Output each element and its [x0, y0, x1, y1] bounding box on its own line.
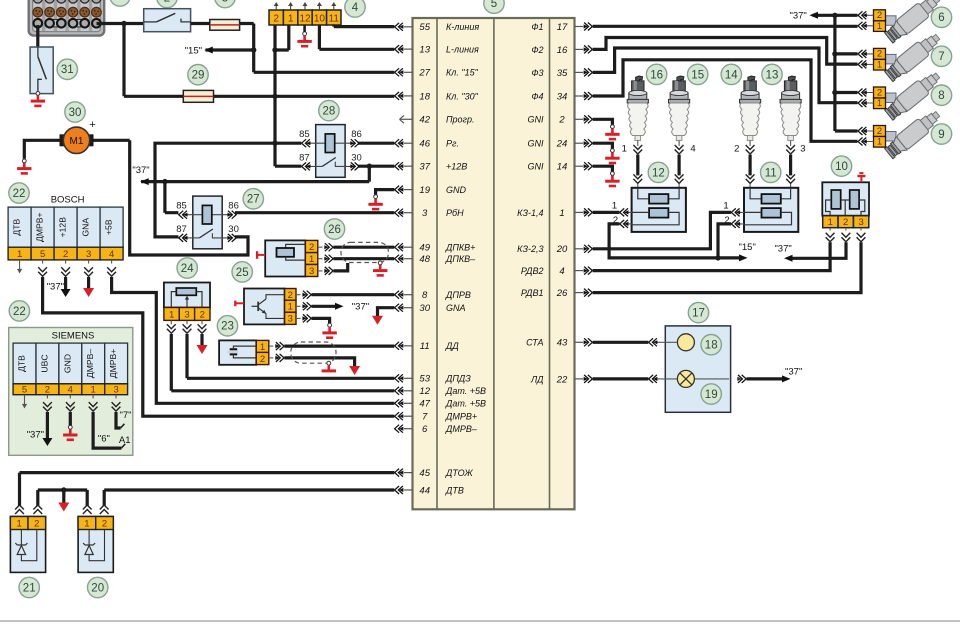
- svg-text:"37": "37": [27, 430, 44, 441]
- junction injector supply 2: [832, 51, 837, 56]
- camshaft position sensor B25 (ДПРВ): [235, 289, 296, 325]
- wire ignition switch to fuse F1: [191, 22, 210, 25]
- label "37" with arrow at sensor 25: [335, 302, 369, 313]
- svg-text:1: 1: [84, 519, 89, 530]
- svg-text:Рг.: Рг.: [446, 139, 459, 149]
- wire sensor24 pin1 to ECU 12 +5V: [171, 334, 394, 391]
- wire BOSCH pin2 to 37-net: [64, 277, 67, 289]
- ground of sensor23 shield: [322, 361, 336, 371]
- label "37" at SIEMENS: [27, 430, 44, 441]
- svg-text:3: 3: [309, 266, 314, 277]
- svg-text:87: 87: [299, 152, 310, 163]
- junction injector supply 1: [832, 13, 837, 18]
- ECU pin 42 Прогр. stub arrow: [400, 115, 413, 123]
- svg-text:1: 1: [612, 201, 617, 212]
- svg-text:24: 24: [181, 263, 194, 275]
- block 17 connector chevrons: [649, 338, 747, 383]
- svg-text:"37": "37": [774, 244, 791, 255]
- junction 15-net at coils: [715, 255, 720, 260]
- wire SIEMENS pin1 to point A1: [93, 412, 125, 448]
- ignition coil T11 (cyl 2-3): [744, 188, 798, 232]
- svg-text:L-линия: L-линия: [446, 45, 479, 55]
- svg-text:1: 1: [622, 144, 627, 155]
- sensor 25 pin chevrons: [296, 291, 311, 323]
- svg-text:Кл. "15": Кл. "15": [446, 68, 479, 78]
- wire ECU 35 Ф3 to injector 8: [593, 48, 858, 103]
- wire coil12 pin2 to 15-net: [609, 224, 741, 258]
- fuel injector Y8: [858, 69, 943, 122]
- svg-text:1: 1: [91, 385, 96, 396]
- circle label 29: [188, 65, 208, 85]
- fuel injector Y7: [858, 30, 943, 83]
- svg-text:2: 2: [102, 519, 107, 530]
- wire sensor25 pin2 to ECU 8 ДПРВ: [312, 293, 395, 296]
- svg-text:ДД: ДД: [445, 341, 459, 351]
- wire main-relay output down to 37-line: [141, 166, 369, 181]
- battery GB1: [29, 0, 105, 36]
- svg-text:1: 1: [288, 13, 294, 24]
- label pin 1 coil 12: [612, 201, 617, 212]
- svg-text:14: 14: [725, 69, 738, 81]
- ground at GNI pin 24: [605, 149, 619, 163]
- ECU left column pin numbers and labels: [418, 22, 486, 496]
- svg-text:30: 30: [351, 152, 362, 163]
- junction 15-feed / pin2 riser: [272, 47, 277, 52]
- wire valve10 pin2 to 37-net: [789, 242, 847, 258]
- svg-text:14: 14: [557, 162, 568, 173]
- svg-text:UBC: UBC: [39, 354, 49, 372]
- svg-text:4: 4: [559, 266, 564, 277]
- svg-text:3: 3: [86, 249, 91, 260]
- svg-text:20: 20: [91, 582, 104, 594]
- ground at ECU pin 19: [368, 195, 382, 209]
- label "15" with arrow: [185, 45, 213, 56]
- coil 11 pin chevrons: [731, 208, 744, 228]
- svg-text:3: 3: [288, 314, 293, 325]
- svg-text:43: 43: [557, 338, 568, 349]
- svg-text:GND: GND: [62, 354, 72, 373]
- svg-text:31: 31: [61, 64, 74, 76]
- svg-text:+12В: +12В: [58, 217, 68, 238]
- wire diag connector pin 2 riser: [275, 25, 301, 166]
- svg-text:1: 1: [117, 0, 123, 3]
- wire relay28 pin86 to ECU pin 46: [358, 142, 394, 145]
- circle label 3 (cut at top edge): [215, 0, 235, 8]
- svg-text:ДТВ: ДТВ: [445, 485, 464, 495]
- label A1: [119, 435, 131, 446]
- svg-text:2: 2: [877, 10, 882, 21]
- wire fuel pump M1 right feed: [90, 139, 130, 142]
- svg-text:Прогр.: Прогр.: [446, 115, 474, 125]
- throttle position sensor B24 (ДПДЗ): [164, 283, 210, 321]
- wire battery minus to switch S31: [36, 25, 39, 47]
- circle label 6: [931, 7, 951, 27]
- svg-text:GNI: GNI: [527, 115, 544, 125]
- label pin 1 coil 11: [723, 201, 728, 212]
- wire BOSCH pin5 ДМРВ+ to ECU 7: [43, 277, 395, 416]
- svg-text:1: 1: [260, 342, 265, 353]
- junction 30-line / connector pin 2 riser: [272, 94, 277, 99]
- svg-text:ДМРВ+: ДМРВ+: [108, 349, 118, 378]
- svg-text:ДПДЗ: ДПДЗ: [445, 374, 471, 384]
- wire temperature sensors ground bus: [38, 490, 87, 506]
- svg-text:+5В: +5В: [104, 219, 114, 235]
- svg-text:ДПРВ: ДПРВ: [445, 290, 471, 300]
- red ground arrow at GNA: [372, 316, 383, 325]
- coolant temperature sensor B21 (ДТОЖ): [10, 517, 45, 573]
- instrument block 17 with lamps: [657, 326, 731, 412]
- svg-text:Ф4: Ф4: [531, 91, 543, 101]
- wire relay27 pin86 to ECU pin 3: [235, 211, 394, 214]
- svg-text:1: 1: [17, 519, 22, 530]
- fuse F29: [183, 90, 213, 102]
- idle air control valve Y10: [822, 182, 869, 228]
- svg-text:Ф2: Ф2: [531, 45, 543, 55]
- ECU right column labels and pin numbers: [517, 22, 568, 385]
- circle label 24: [177, 258, 197, 278]
- svg-text:1: 1: [559, 208, 564, 219]
- wire sensor20 pin2 to ECU 44 ДТВ: [104, 490, 394, 506]
- air flow sensor B22 SIEMENS variant: [9, 328, 133, 456]
- wire relay27 output to fuel pump M1: [130, 140, 248, 255]
- svg-text:1: 1: [877, 21, 882, 32]
- svg-text:2: 2: [45, 385, 50, 396]
- svg-text:5: 5: [22, 385, 27, 396]
- svg-text:12: 12: [419, 386, 430, 397]
- svg-text:2: 2: [734, 144, 739, 155]
- svg-text:13: 13: [766, 69, 779, 81]
- ground of sensor26 shield: [373, 261, 387, 275]
- svg-text:М1: М1: [70, 136, 84, 147]
- ignition switch S2: [144, 9, 191, 32]
- svg-text:ДМРВ–: ДМРВ–: [445, 424, 478, 434]
- svg-text:Ф3: Ф3: [531, 68, 543, 78]
- svg-text:19: 19: [419, 185, 430, 196]
- svg-text:17: 17: [692, 308, 705, 320]
- svg-text:48: 48: [419, 254, 430, 265]
- wire ECU pin 30 GNA to ground-net: [378, 308, 395, 316]
- ground at GNI pin 14: [605, 172, 619, 186]
- svg-text:"37": "37": [785, 366, 802, 377]
- wire relay28 pin30 to ECU pin 37: [358, 165, 394, 168]
- svg-text:10: 10: [835, 161, 848, 173]
- circle label 14: [721, 64, 741, 84]
- svg-text:ДМРВ+: ДМРВ+: [445, 412, 477, 422]
- svg-text:1: 1: [877, 137, 882, 148]
- SIEMENS pin5 unconnected arrow: [22, 395, 27, 409]
- circle label 18: [701, 335, 721, 355]
- svg-text:44: 44: [419, 485, 430, 496]
- svg-text:35: 35: [557, 68, 568, 79]
- relay K27 (fuel pump relay): [176, 196, 239, 249]
- wire ECU 1 КЗ-1,4 to coil 12: [593, 211, 620, 214]
- circle label 8: [931, 85, 951, 105]
- knock sensor B23 (ДД): [219, 340, 269, 365]
- svg-text:28: 28: [323, 106, 336, 118]
- svg-text:2: 2: [273, 13, 279, 24]
- label "37" with arrow at injector supply: [789, 10, 818, 21]
- svg-text:GND: GND: [446, 185, 467, 195]
- shield of knock sensor wires: [291, 342, 336, 363]
- svg-text:GNA: GNA: [446, 303, 466, 313]
- label "7" at SIEMENS pin3: [120, 410, 132, 421]
- svg-text:ДТОЖ: ДТОЖ: [445, 468, 473, 478]
- label pin 2 coil 11: [724, 215, 729, 226]
- red ground arrow at sensor24 pin2: [197, 345, 208, 354]
- coil 12 pin chevrons: [620, 208, 632, 228]
- svg-text:ДПКВ–: ДПКВ–: [445, 254, 476, 264]
- wire sensor26 pin3 shield: [333, 263, 347, 271]
- svg-text:ЛД: ЛД: [530, 374, 544, 384]
- spark plug FV15: [669, 76, 690, 154]
- svg-text:К-линия: К-линия: [446, 22, 479, 32]
- svg-text:2: 2: [877, 126, 882, 137]
- svg-text:16: 16: [650, 69, 663, 81]
- svg-text:РДВ2: РДВ2: [521, 266, 544, 276]
- switch S31: [30, 47, 53, 94]
- svg-text:2: 2: [200, 310, 205, 321]
- svg-text:"37": "37": [47, 282, 64, 293]
- svg-text:16: 16: [557, 45, 568, 56]
- circle label 16: [646, 64, 666, 84]
- svg-text:A1: A1: [119, 435, 131, 446]
- red ground arrow at temp sensor bus: [58, 503, 69, 512]
- wire sensor24 pin3 to ECU 53 ДПДЗ: [187, 334, 394, 378]
- svg-text:86: 86: [351, 129, 362, 140]
- svg-text:21: 21: [23, 582, 36, 594]
- wire sensor26 pin1 to ECU 48 ДПКВ-: [333, 257, 394, 260]
- svg-text:7: 7: [938, 51, 944, 63]
- wire SIEMENS pin3 to point 7: [116, 412, 124, 428]
- wire node 15 to ECU pin 27: [254, 50, 395, 72]
- ground at sensor25 pin3: [322, 323, 336, 337]
- wire diag connector pin 11 to ECU pin 55 K-line: [334, 25, 395, 27]
- svg-text:23: 23: [221, 321, 234, 333]
- circle label 11: [761, 162, 781, 182]
- svg-text:2: 2: [63, 249, 68, 260]
- svg-text:2: 2: [877, 49, 882, 60]
- junction ground bus: [61, 487, 66, 492]
- svg-text:"15": "15": [739, 242, 756, 253]
- svg-text:12: 12: [299, 13, 311, 24]
- svg-text:26: 26: [328, 224, 341, 236]
- wire ECU 43 СТА to lamp 18: [593, 341, 649, 344]
- svg-text:GNI: GNI: [527, 162, 544, 172]
- svg-text:3: 3: [222, 0, 228, 4]
- junction 37-line to relay27 coil: [162, 179, 167, 184]
- wire node 15 feeder: [206, 48, 254, 51]
- wire 30-line through fuse 29 to ECU pin 18: [124, 95, 394, 98]
- wire diag connector pin 10 to ECU pin 13 L-line: [319, 25, 394, 49]
- circle label 23: [217, 316, 237, 336]
- circle label 12: [648, 162, 668, 182]
- svg-text:55: 55: [419, 22, 430, 33]
- diagnostic connector X4 pin row: [269, 2, 341, 25]
- svg-text:2: 2: [164, 0, 170, 4]
- wire fuel pump M1 to ground: [24, 140, 63, 158]
- circle label 15: [688, 64, 708, 84]
- label "37" with arrow at main relay output: [132, 165, 149, 185]
- circle label 27: [243, 189, 263, 209]
- svg-text:34: 34: [557, 91, 568, 102]
- ground at connector pin 12: [297, 32, 311, 46]
- svg-text:86: 86: [228, 201, 239, 212]
- wire ECU 26 РДВ1 to valve10 pin3: [593, 242, 861, 292]
- svg-text:85: 85: [299, 129, 310, 140]
- wire ECU pin 19 to ground: [376, 190, 395, 195]
- svg-text:2: 2: [260, 354, 265, 365]
- svg-text:BOSCH: BOSCH: [51, 195, 85, 206]
- wire lamp 19 output to 37-net: [747, 377, 786, 380]
- svg-text:1: 1: [828, 217, 833, 228]
- label "37" at BOSCH: [47, 282, 64, 293]
- ECU controller U5 box: [413, 18, 575, 509]
- svg-text:GNI: GNI: [527, 139, 544, 149]
- svg-text:11: 11: [329, 13, 340, 24]
- circle label 17: [688, 302, 708, 322]
- svg-text:GNA: GNA: [81, 218, 91, 237]
- svg-text:1: 1: [309, 254, 314, 265]
- svg-text:42: 42: [419, 115, 430, 126]
- circle label 22 (SIEMENS): [9, 301, 29, 321]
- junction 15-feed / fuse drop: [251, 47, 256, 52]
- ground at SIEMENS pin4: [63, 425, 77, 439]
- circle label 1 (cut at top edge): [110, 0, 130, 6]
- svg-text:РбН: РбН: [446, 208, 464, 218]
- svg-text:+12В: +12В: [446, 162, 467, 172]
- circle label 22 (BOSCH): [9, 183, 29, 203]
- red mark at valve 10: [857, 173, 865, 182]
- svg-text:3: 3: [422, 208, 428, 219]
- crankshaft position sensor B26 (ДПКВ): [257, 240, 318, 277]
- svg-text:"37": "37": [352, 302, 369, 313]
- svg-text:2: 2: [877, 87, 882, 98]
- svg-text:13: 13: [419, 45, 430, 56]
- sensor 23 pin chevrons: [269, 342, 284, 362]
- fuel injector Y9: [858, 107, 943, 160]
- wire sensor21 pin1 to ECU 45 ДТОЖ: [20, 473, 395, 506]
- circle label 4: [345, 0, 365, 17]
- svg-text:18: 18: [705, 340, 718, 352]
- circle label 28: [319, 100, 339, 120]
- wire ECU 16 Ф2 to injector 7: [593, 38, 858, 65]
- svg-text:4: 4: [109, 249, 114, 260]
- svg-text:3: 3: [184, 310, 189, 321]
- circle label 5 for ECU: [484, 0, 504, 13]
- svg-text:30: 30: [419, 303, 430, 314]
- svg-text:СТА: СТА: [526, 338, 543, 348]
- wire BOSCH pin4 +5V to ECU 47: [112, 277, 395, 403]
- svg-text:2: 2: [843, 217, 848, 228]
- circle label 2 (cut at top edge): [157, 0, 177, 8]
- svg-text:8: 8: [938, 90, 944, 102]
- BOSCH pin arrows: [38, 260, 116, 276]
- svg-text:9: 9: [938, 129, 944, 141]
- svg-text:Кл. "30": Кл. "30": [446, 91, 479, 101]
- wire battery plus to ignition switch and fuse: [97, 24, 144, 97]
- junction injector supply 3: [832, 90, 837, 95]
- svg-text:22: 22: [13, 306, 26, 318]
- label "15" with arrow at coils: [739, 242, 756, 261]
- svg-text:19: 19: [705, 389, 718, 401]
- svg-text:1: 1: [288, 302, 293, 313]
- svg-text:37: 37: [419, 162, 430, 173]
- svg-text:10: 10: [314, 13, 326, 24]
- label pin 2 coil 12: [613, 215, 618, 226]
- circle label 26: [324, 219, 344, 239]
- plus label at M1: [89, 119, 95, 131]
- wire ECU 4 РДВ2 to valve10 pin1: [593, 242, 830, 270]
- wire ECU 17 Ф1 to injector 6: [593, 25, 858, 28]
- svg-text:"37": "37": [789, 10, 806, 21]
- svg-text:8: 8: [422, 290, 428, 301]
- label cylinder 2 at plug 14: [734, 144, 739, 155]
- svg-text:4: 4: [68, 385, 73, 396]
- svg-text:4: 4: [352, 2, 359, 14]
- junction battery plus: [121, 21, 126, 26]
- air temperature sensor B20 (ДТВ): [78, 517, 113, 573]
- svg-text:45: 45: [419, 468, 430, 479]
- svg-text:25: 25: [236, 267, 249, 279]
- wire SIEMENS pin2 UBC to 37-net: [46, 412, 49, 438]
- svg-text:22: 22: [13, 188, 26, 200]
- red ground arrow at BOSCH pin3: [83, 288, 94, 297]
- svg-text:47: 47: [419, 399, 430, 410]
- ground at GNI pin 2: [605, 125, 619, 139]
- svg-text:5: 5: [491, 0, 497, 10]
- ground below fuel pump M1: [17, 159, 31, 173]
- svg-text:1: 1: [877, 98, 882, 109]
- svg-text:3: 3: [113, 385, 118, 396]
- svg-text:"37": "37": [132, 165, 149, 176]
- wire coil11 pin2 to 15-net: [718, 224, 731, 258]
- svg-text:3: 3: [858, 217, 863, 228]
- svg-text:85: 85: [176, 201, 187, 212]
- wires ECU GNI pins to ground: [593, 119, 613, 171]
- wire diag connector pin1-pin2 tie: [275, 25, 289, 50]
- svg-text:6: 6: [422, 424, 428, 435]
- svg-text:Дат. +5В: Дат. +5В: [445, 386, 486, 396]
- label cylinder 3 at plug 13: [800, 144, 805, 155]
- svg-text:2: 2: [558, 115, 565, 126]
- svg-text:1: 1: [877, 60, 882, 71]
- SIEMENS pin arrows: [43, 395, 120, 411]
- svg-text:КЗ-1,4: КЗ-1,4: [517, 208, 543, 218]
- svg-text:Дат. +5В: Дат. +5В: [445, 399, 486, 409]
- temperature sensor pin arrows: [15, 505, 109, 514]
- black arrow 37-net at SIEMENS pin2: [42, 438, 52, 446]
- circle label 19: [701, 384, 721, 404]
- svg-text:1: 1: [169, 310, 174, 321]
- svg-text:22: 22: [556, 374, 568, 385]
- svg-text:11: 11: [765, 167, 777, 179]
- svg-text:15: 15: [691, 69, 704, 81]
- circle label 30: [65, 102, 85, 122]
- circle label 13: [762, 64, 782, 84]
- svg-text:ДМРВ+: ДМРВ+: [35, 212, 45, 241]
- svg-text:29: 29: [192, 70, 205, 82]
- wire ECU 20 КЗ-2,3 to coil 11: [593, 212, 731, 248]
- svg-text:ДТВ: ДТВ: [17, 355, 27, 372]
- circle label 10: [831, 156, 851, 176]
- svg-text:18: 18: [419, 91, 430, 102]
- svg-text:РДВ1: РДВ1: [521, 288, 544, 298]
- circle label 20: [88, 577, 108, 597]
- air flow sensor B22 BOSCH variant: [8, 195, 123, 261]
- svg-text:ДТВ: ДТВ: [12, 219, 22, 236]
- spark plug FV16: [627, 76, 648, 154]
- svg-text:27: 27: [418, 68, 430, 79]
